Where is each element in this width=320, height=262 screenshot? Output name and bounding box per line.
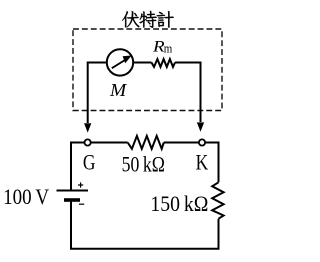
wire Rm to top-right corner, down to arrow — [175, 63, 201, 123]
svg-text:G: G — [83, 149, 96, 174]
svg-text:100 V: 100 V — [3, 184, 50, 209]
plus sign — [78, 182, 83, 187]
wire 150k to bottom corners and up to battery minus — [71, 201, 219, 249]
wire left side: top corner to node G and down-left to battery — [71, 143, 84, 190]
arrowhead left (to node G) — [84, 123, 91, 132]
battery cell short negative plate — [64, 198, 80, 202]
meter M circle — [107, 49, 133, 75]
svg-text:m: m — [164, 42, 173, 56]
battery cell long positive plate — [57, 190, 89, 192]
wire meter to resistor Rm — [134, 62, 152, 64]
node G open circle — [85, 139, 91, 145]
svg-text:50 kΩ: 50 kΩ — [122, 152, 165, 177]
resistor 50k zigzag — [128, 136, 164, 149]
svg-text:M: M — [109, 80, 127, 100]
wire 50k resistor to node K — [164, 142, 199, 144]
wire node K to top-right corner down to 150k — [206, 143, 219, 183]
resistor 150k vertical zigzag — [212, 182, 223, 218]
wire node G to 50k resistor — [91, 142, 128, 144]
voltmeter dashed enclosure box — [73, 29, 222, 111]
svg-text:K: K — [196, 149, 209, 174]
label voltmeter title 伏特計 — [122, 11, 174, 28]
svg-text:150 kΩ: 150 kΩ — [150, 191, 208, 216]
node K open circle — [199, 139, 205, 145]
resistor Rm zigzag — [152, 59, 176, 67]
meter needle arrow — [112, 60, 125, 68]
wire top-left from meter to corner and down — [88, 63, 107, 124]
arrowhead right (to node K) — [197, 122, 204, 131]
minus sign — [79, 203, 84, 205]
